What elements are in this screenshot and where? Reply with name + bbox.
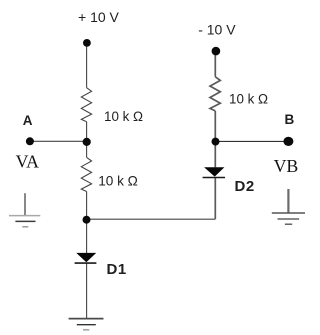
svg-text:D2: D2	[235, 178, 255, 195]
svg-text:B: B	[285, 112, 295, 127]
svg-text:VB: VB	[274, 156, 299, 176]
svg-text:10 k Ω: 10 k Ω	[98, 173, 138, 188]
svg-text:10 k Ω: 10 k Ω	[229, 91, 268, 106]
svg-text:+ 10 V: + 10 V	[78, 9, 120, 25]
svg-text:D1: D1	[107, 261, 127, 278]
svg-text:- 10 V: - 10 V	[198, 22, 236, 38]
svg-text:10 k Ω: 10 k Ω	[104, 109, 143, 124]
svg-text:A: A	[23, 113, 33, 128]
svg-text:VA: VA	[16, 152, 40, 172]
